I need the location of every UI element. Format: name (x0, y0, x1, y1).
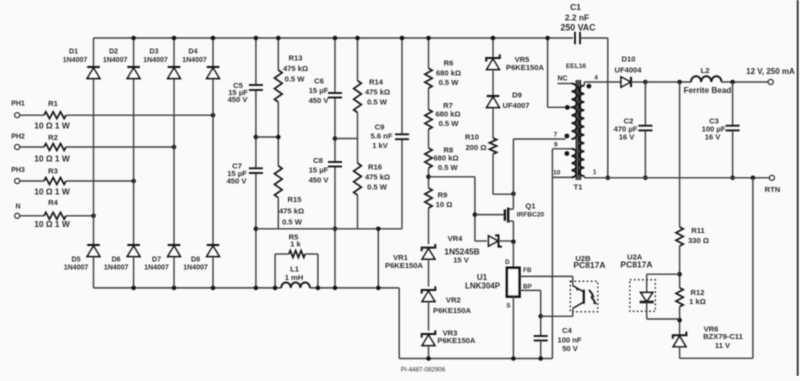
svg-text:1N4007: 1N4007 (63, 57, 88, 64)
resistor R3 (44, 178, 66, 185)
label 12V output (746, 67, 795, 76)
svg-text:0.5 W: 0.5 W (367, 183, 388, 192)
svg-text:15 V: 15 V (453, 256, 470, 265)
wire midpoint link C5C7-R13R15 (256, 136, 278, 138)
capacitor C8 (328, 162, 342, 167)
op-amp U2A PC817A LED (630, 280, 656, 312)
svg-text:10 Ω 1 W: 10 Ω 1 W (34, 120, 70, 130)
terminal PH3 (11, 167, 25, 183)
svg-text:N: N (15, 204, 20, 211)
wire bridge bottom rail (94, 287, 400, 289)
label R16 (365, 163, 390, 192)
wire N to bridge (66, 215, 94, 217)
svg-text:EEL16: EEL16 (566, 63, 586, 70)
svg-text:C8: C8 (313, 156, 323, 165)
svg-text:R11: R11 (691, 226, 705, 235)
wire PH3 to bridge (66, 180, 134, 182)
wire bridge column D3/D7 (173, 38, 175, 288)
junction BP/C4/emitter (538, 314, 543, 319)
wire U2A anode link (647, 274, 680, 292)
svg-text:12 V, 250 mA: 12 V, 250 mA (746, 67, 795, 76)
junction N/bridge (91, 214, 96, 219)
label C2 (614, 116, 638, 141)
wire C9 column (401, 38, 403, 229)
wire C6/C8 column (334, 38, 336, 288)
capacitor C4 (534, 336, 548, 341)
junction C6/C8 bottom rail (333, 286, 338, 291)
svg-text:VR4: VR4 (448, 234, 464, 243)
diode D3 (168, 67, 181, 79)
label U2B (573, 254, 605, 270)
svg-text:L2: L2 (701, 66, 710, 75)
wire T1 pin 10 (552, 176, 571, 178)
diode D2 (127, 67, 140, 79)
svg-text:11 V: 11 V (715, 341, 731, 350)
junction link jog (376, 227, 381, 232)
wire C1 right (580, 38, 608, 178)
label D5 (64, 257, 89, 272)
junction PH3/bridge (131, 179, 136, 184)
label L2 (684, 66, 732, 95)
junction R14 top bus (355, 36, 360, 41)
capacitor C7 (249, 168, 263, 173)
label R2 (48, 133, 58, 142)
wire VR3 to source rail (428, 346, 430, 359)
resistor R16 (354, 163, 362, 195)
wire PH3 lead (20, 180, 44, 182)
svg-text:0.5 W: 0.5 W (285, 75, 306, 84)
svg-text:T1: T1 (574, 183, 583, 192)
svg-text:S: S (506, 303, 510, 310)
resistor R1 (44, 112, 66, 119)
wire U1 FB to U2B (520, 275, 573, 277)
junction VR5 top bus (491, 36, 496, 41)
junction C6/C8 bottom link (333, 227, 338, 232)
svg-text:P6KE150A: P6KE150A (437, 336, 476, 345)
svg-text:P6KE150A: P6KE150A (385, 261, 424, 270)
label L1 (285, 265, 304, 282)
wire bottom rail step down (398, 288, 400, 359)
transformer T1 primary winding (572, 84, 577, 178)
capacitor C9 (395, 134, 409, 139)
svg-text:R6: R6 (444, 59, 454, 68)
label C4 (557, 326, 581, 353)
label R1 value (34, 120, 70, 130)
wire cap-bank bottom link (256, 228, 402, 230)
junction VR3/source rail (426, 356, 431, 361)
wire D9-R10 (492, 108, 494, 139)
junction C2/RTN (643, 176, 648, 181)
svg-text:680 kΩ: 680 kΩ (433, 154, 458, 163)
label D4 (182, 49, 207, 64)
label U1 (465, 273, 501, 291)
junction VR6 return/RTN (751, 176, 756, 181)
junction C3/RTN (730, 176, 735, 181)
svg-text:16 V: 16 V (619, 133, 636, 142)
wire U2A cathode link (647, 302, 680, 319)
wire U1 BP (520, 290, 541, 316)
svg-text:C1: C1 (570, 2, 581, 12)
label D10 (614, 55, 642, 75)
label D7 (144, 257, 169, 272)
junction R6 top bus (426, 36, 431, 41)
svg-text:R4: R4 (48, 198, 58, 207)
svg-text:P6KE150A: P6KE150A (433, 306, 472, 315)
wire lower source rail (399, 358, 552, 360)
terminal 12V output (768, 80, 773, 85)
wire VR5 column top (492, 38, 494, 58)
transformer T1 core (576, 80, 580, 180)
svg-text:330 Ω: 330 Ω (688, 236, 709, 245)
label R11 (688, 226, 709, 245)
terminal N (15, 204, 21, 219)
svg-text:15 µF: 15 µF (309, 166, 329, 175)
svg-text:2.2 nF: 2.2 nF (565, 12, 589, 22)
svg-text:5.6 nF: 5.6 nF (371, 132, 393, 141)
wire R11 column top (679, 82, 681, 227)
svg-text:LNK304P: LNK304P (465, 281, 501, 290)
svg-text:10 Ω 1 W: 10 Ω 1 W (34, 219, 70, 229)
junction bottom rail (211, 286, 216, 291)
svg-text:R14: R14 (369, 78, 384, 87)
svg-text:BZX79-C11: BZX79-C11 (703, 332, 743, 341)
label T1 EEL16 (566, 63, 586, 70)
wire VR6 to return (680, 178, 753, 358)
label R1 (48, 99, 58, 108)
transformer T1 secondary winding (579, 82, 584, 178)
wire T1 pin 9 stub (552, 149, 571, 178)
zener VR5 (486, 54, 500, 69)
wire R14/R16 column (357, 38, 359, 229)
diode D8 (207, 245, 220, 257)
diode D6 (127, 245, 140, 257)
svg-text:1N4007: 1N4007 (144, 264, 169, 271)
svg-text:D9: D9 (512, 91, 522, 100)
junction R8/R9 tap (426, 175, 431, 180)
wire R8/R9 tap to gate column (429, 177, 475, 241)
label T1 pin 7 (554, 132, 558, 139)
wire T1 pin 4 to D10 (584, 81, 620, 83)
junction U1 S rail (511, 356, 516, 361)
wire RTN rail (584, 177, 769, 179)
svg-text:680 kΩ: 680 kΩ (436, 69, 461, 78)
svg-text:UF4007: UF4007 (502, 101, 529, 110)
wire VR1-VR2 (428, 259, 430, 287)
svg-text:475 kΩ: 475 kΩ (365, 173, 390, 182)
label VR5 (506, 55, 545, 72)
junction jog bottom rail (376, 286, 381, 291)
svg-text:R9: R9 (438, 191, 448, 200)
wire VR5-D9 (492, 70, 494, 97)
svg-text:16 V: 16 V (705, 133, 722, 142)
label C1 (560, 2, 596, 32)
label T1 (574, 183, 583, 192)
label Q1 (517, 202, 545, 219)
svg-text:D3: D3 (150, 49, 159, 56)
junction R11 tap (677, 80, 682, 85)
resistor R4 (44, 212, 66, 219)
svg-text:FB: FB (523, 267, 532, 274)
junction gate tee (473, 212, 478, 217)
wire R11 to R12 (679, 246, 681, 288)
resistor R5 (289, 251, 305, 258)
svg-text:PH1: PH1 (11, 100, 25, 107)
svg-text:R10: R10 (465, 133, 479, 142)
diode D9 (487, 96, 500, 108)
diode D10 (621, 77, 631, 87)
capacitor C2 (638, 82, 652, 178)
label C9 (371, 123, 393, 151)
diode D5 (87, 245, 100, 257)
svg-text:RTN: RTN (765, 185, 781, 194)
wire C4 bottom (540, 341, 542, 359)
label D3 (143, 49, 168, 64)
terminal PH1 (11, 100, 25, 117)
svg-text:R12: R12 (691, 288, 705, 297)
svg-text:D8: D8 (191, 257, 200, 264)
label D8 (183, 257, 208, 272)
svg-text:10 Ω 1 W: 10 Ω 1 W (34, 154, 70, 164)
wire R12 to VR6 (679, 307, 681, 335)
label R4 (48, 198, 58, 207)
svg-text:Q1: Q1 (525, 202, 536, 211)
svg-text:PH2: PH2 (11, 134, 25, 141)
svg-text:1N4007: 1N4007 (104, 264, 129, 271)
label U1 pin D (505, 259, 510, 266)
label R3 value (34, 187, 70, 197)
wire PH2 lead (20, 146, 44, 148)
wire D10 to output node (631, 81, 645, 83)
wire U1 source to rail (512, 297, 514, 359)
svg-text:1N4007: 1N4007 (64, 264, 89, 271)
junction C5/C7 bottom link (254, 227, 259, 232)
label R12 (689, 288, 706, 306)
terminal RTN (770, 175, 775, 180)
capacitor C1 (575, 32, 580, 44)
label T1 pin 9 (554, 142, 558, 149)
svg-text:C6: C6 (314, 77, 324, 86)
svg-text:D7: D7 (152, 257, 161, 264)
junction bottom rail (131, 286, 136, 291)
junction C6 top bus (333, 36, 338, 41)
resistor R9 (425, 188, 432, 208)
resistor R8 (425, 148, 432, 168)
label R8 (433, 145, 458, 172)
wire VR2-VR3 (428, 302, 430, 331)
junction L1 right (316, 286, 321, 291)
label PI-4487-082906 (401, 366, 446, 373)
zener VR3 (422, 330, 436, 345)
label RTN (765, 185, 781, 194)
svg-text:PC817A: PC817A (620, 260, 652, 270)
svg-text:475 kΩ: 475 kΩ (283, 64, 308, 73)
phase dot pin 5 (565, 105, 570, 110)
svg-text:1N4007: 1N4007 (103, 57, 128, 64)
svg-text:D2: D2 (109, 49, 118, 56)
label U2A (620, 253, 652, 270)
label C7 (227, 162, 248, 186)
wire PH1 lead (20, 114, 44, 116)
label R7 (435, 101, 460, 128)
svg-text:10 Ω 1 W: 10 Ω 1 W (34, 187, 70, 197)
resistor R11 (676, 227, 683, 246)
svg-text:50 V: 50 V (562, 344, 579, 353)
junction top bus (211, 36, 216, 41)
junction C5 top bus (254, 36, 259, 41)
svg-text:D1: D1 (69, 49, 78, 56)
phase dot pin 7 (565, 134, 570, 139)
resistor R7 (425, 110, 432, 130)
wire U2B emitter to BP node (541, 315, 573, 317)
junction C6/C8 midpoint (333, 136, 338, 141)
svg-text:475 kΩ: 475 kΩ (279, 207, 304, 216)
svg-text:C9: C9 (375, 123, 385, 132)
junction C3 tap (730, 80, 735, 85)
svg-text:0.5 W: 0.5 W (438, 163, 459, 172)
op-amp U1 LNK304P (507, 268, 520, 297)
label VR1 (385, 253, 424, 270)
diode D1 (87, 67, 100, 79)
transformer T1 NC stub (558, 83, 572, 85)
svg-text:D5: D5 (72, 257, 81, 264)
label VR4 (444, 234, 479, 265)
svg-text:P6KE150A: P6KE150A (506, 63, 545, 72)
svg-text:NC: NC (557, 75, 567, 82)
junction D10/C2 (643, 80, 648, 85)
junction VR4/source/D (511, 240, 516, 245)
svg-text:450 V: 450 V (228, 95, 249, 104)
label D9 (502, 91, 529, 111)
svg-text:1 mH: 1 mH (285, 273, 304, 282)
wire R5 branch left (275, 254, 289, 288)
wire link jog down to bottom rail (377, 229, 379, 288)
label VR3 (437, 328, 476, 345)
label C5 (228, 81, 249, 104)
wire PH1 to bridge (66, 114, 213, 116)
svg-text:IRFBC20: IRFBC20 (517, 211, 545, 218)
junction R12/VR6/U2A cathode (677, 318, 682, 323)
svg-text:PI-4487-082906: PI-4487-082906 (401, 366, 446, 373)
svg-text:450 V: 450 V (309, 176, 330, 185)
label R13 (283, 54, 308, 84)
junction bottom rail (172, 286, 177, 291)
junction PH1/bridge (211, 113, 216, 118)
junction L1 left (273, 286, 278, 291)
svg-text:0.5 W: 0.5 W (439, 78, 460, 87)
svg-text:15 µF: 15 µF (309, 86, 329, 95)
inductor L1 (281, 282, 310, 288)
junction C9 top bus (400, 36, 405, 41)
label R9 (436, 191, 453, 210)
svg-text:UF4004: UF4004 (614, 66, 642, 75)
svg-text:1 k: 1 k (290, 240, 301, 249)
phase dot pin 4 (587, 84, 592, 89)
inductor L2 (691, 76, 722, 82)
svg-text:R15: R15 (288, 195, 303, 204)
phase dot pin 9 (565, 151, 570, 156)
junction R13 top bus (276, 36, 281, 41)
resistor R13 (275, 70, 283, 102)
svg-text:450 V: 450 V (227, 177, 248, 186)
svg-text:1N4007: 1N4007 (143, 57, 168, 64)
svg-text:0.5 W: 0.5 W (439, 119, 460, 128)
resistor R14 (354, 81, 362, 113)
wire PH2 to bridge (66, 146, 174, 148)
svg-text:BP: BP (523, 284, 532, 291)
svg-text:475 kΩ: 475 kΩ (365, 88, 390, 97)
diode D7 (168, 245, 181, 257)
resistor R12 (676, 288, 683, 307)
svg-text:200 Ω: 200 Ω (466, 143, 487, 152)
label U1 pin S (506, 303, 510, 310)
junction R11/R12/U2A anode (677, 272, 682, 277)
wire C4 top (540, 316, 542, 336)
label T1 pin 4 (594, 75, 598, 82)
svg-text:R13: R13 (289, 54, 303, 63)
label R14 (365, 78, 390, 107)
label VR6 (703, 325, 743, 350)
svg-text:R2: R2 (48, 133, 58, 142)
resistor R15 (275, 166, 283, 198)
wire top DC bus (94, 37, 574, 39)
svg-text:1N4007: 1N4007 (183, 264, 208, 271)
wire bridge column D2/D6 (133, 38, 135, 288)
svg-text:R16: R16 (368, 163, 382, 172)
label R5 (289, 233, 302, 249)
label R3 (48, 167, 58, 176)
label D2 (103, 49, 128, 64)
svg-text:1: 1 (593, 169, 597, 176)
zener VR6 (673, 332, 687, 347)
label R2 value (34, 154, 70, 164)
svg-text:1N4007: 1N4007 (182, 57, 207, 64)
svg-text:Ferrite Bead: Ferrite Bead (684, 86, 732, 95)
svg-text:C4: C4 (562, 326, 572, 335)
resistor R2 (44, 144, 66, 151)
svg-text:PH3: PH3 (11, 167, 25, 174)
wire bridge column D1/D5 (93, 38, 95, 288)
svg-text:450 V: 450 V (309, 96, 330, 105)
svg-text:1 kV: 1 kV (372, 141, 389, 150)
junction bus/pin5 riser (545, 36, 550, 41)
svg-text:VR2: VR2 (446, 296, 461, 305)
transistor Q1 (505, 208, 514, 242)
svg-text:4: 4 (594, 75, 598, 82)
wire N lead (20, 215, 44, 217)
terminal PH2 (11, 134, 25, 150)
svg-text:0.5 W: 0.5 W (282, 217, 303, 226)
svg-text:10: 10 (553, 169, 561, 176)
wire R6..R9 column (428, 38, 430, 244)
svg-text:680 kΩ: 680 kΩ (435, 110, 460, 119)
svg-text:7: 7 (554, 132, 558, 139)
wire C5/C7 column (255, 38, 257, 288)
svg-text:R1: R1 (48, 99, 58, 108)
svg-text:250 VAC: 250 VAC (560, 23, 596, 33)
zener VR4 (475, 235, 514, 246)
junction top bus (131, 36, 136, 41)
wire Q1 source to U1 drain (512, 242, 514, 268)
label R4 value (34, 219, 70, 229)
wire output node to L2 (645, 81, 691, 83)
junction drain node (511, 192, 516, 197)
wire pin7 to Q1 drain (512, 139, 514, 209)
junction R13/R15 midpoint (276, 135, 281, 140)
label C3 (702, 116, 726, 141)
label C6 (309, 77, 330, 105)
label R10 (465, 133, 486, 153)
label T1 pin 10 (553, 169, 561, 176)
